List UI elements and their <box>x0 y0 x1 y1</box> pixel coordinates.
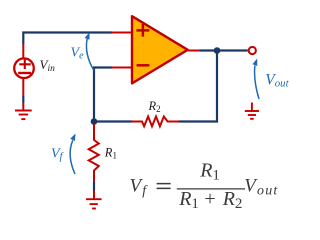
wire: red stub into + input <box>111 32 132 34</box>
wire: Vin top red stub <box>22 44 24 58</box>
wire: Vin bottom red lead <box>22 78 24 96</box>
voltage source Vin <box>14 58 34 78</box>
voltage source minus mark <box>18 72 31 74</box>
wire: feedback vertical from output node <box>179 51 218 122</box>
wire: red lead node A to R1 <box>93 124 95 141</box>
resistor R2 <box>131 117 180 127</box>
ground (below Vin) <box>15 111 32 120</box>
resistor R1 <box>89 140 99 171</box>
arrow Ve (curved) <box>86 39 93 71</box>
wire: op-amp output red stub <box>188 50 201 52</box>
wire: Vin top corner to op-amp + input (navy part) <box>23 33 112 45</box>
node A junction dot <box>91 118 98 125</box>
op-amp triangle <box>132 16 188 83</box>
node: output junction dot <box>214 47 221 54</box>
wire: red lead to ground <box>22 103 24 111</box>
wire: feedback navy from node A to R2 <box>94 120 132 122</box>
wire: red stub into - input <box>111 67 132 69</box>
ground (below R1) <box>86 199 102 208</box>
wire: navy segment below source <box>22 96 24 103</box>
wire: red lead below R1 <box>93 170 95 182</box>
arrow Vout (curved) <box>255 66 259 100</box>
voltage source plus mark <box>19 59 30 69</box>
wire: navy segment below R1 <box>93 182 95 191</box>
svg-text:R1+R2: R1+R2 <box>178 188 242 212</box>
equation: Vf = R1/(R1+R2) Vout <box>130 160 279 213</box>
wire: output navy to terminal <box>200 49 248 51</box>
wire: inverting input vertical from node A <box>94 68 112 122</box>
ground (Vout reference) <box>245 103 259 119</box>
terminal: Vout open circle <box>249 47 256 54</box>
wire: red lead to middle ground <box>93 191 95 199</box>
arrow Vf (curved) <box>70 140 75 174</box>
op-amp + pin mark <box>136 24 149 37</box>
op-amp - pin mark <box>137 64 150 67</box>
